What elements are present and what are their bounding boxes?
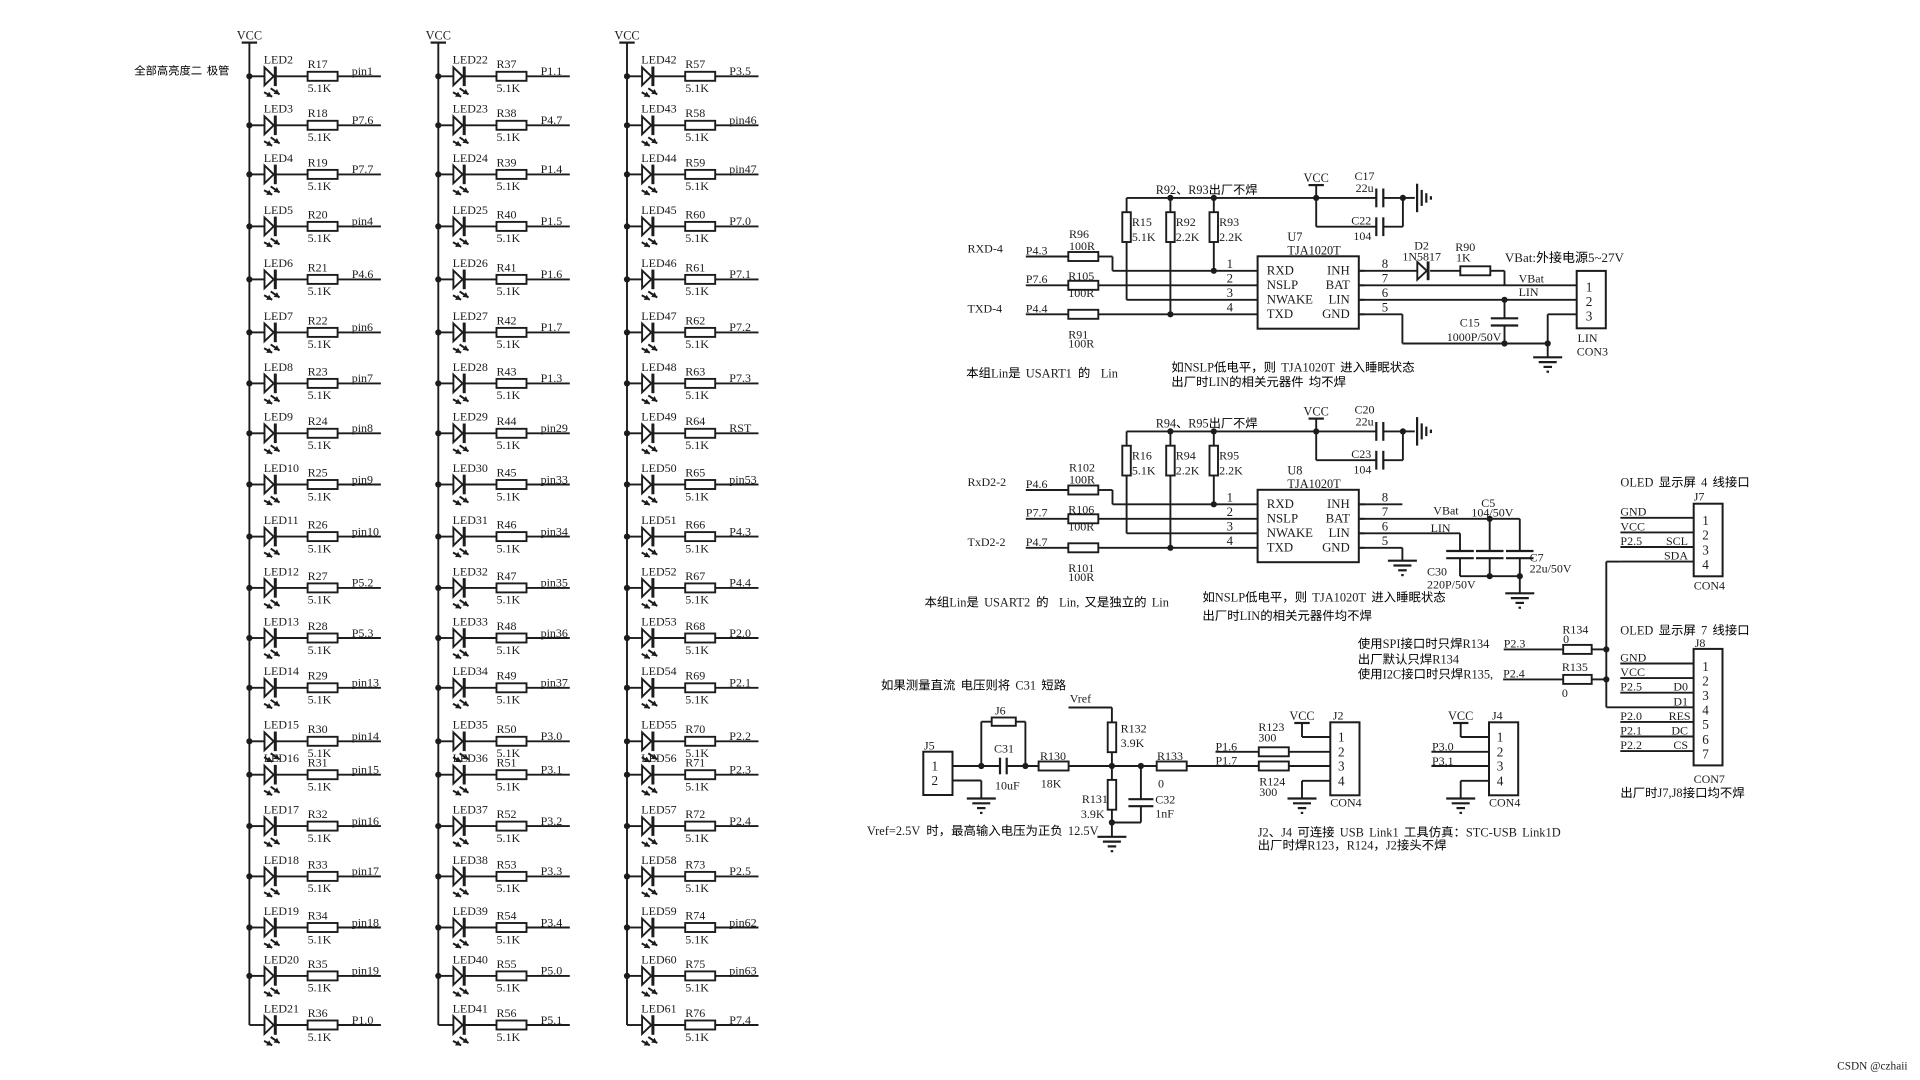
svg-text:LED53: LED53 (641, 614, 676, 628)
svg-text:R64: R64 (685, 414, 705, 428)
svg-text:2: 2 (1586, 294, 1593, 309)
svg-text:2: 2 (1227, 505, 1233, 519)
svg-text:R36: R36 (308, 1006, 328, 1020)
svg-text:P2.2: P2.2 (729, 729, 751, 743)
svg-text:LED8: LED8 (264, 360, 293, 374)
svg-text:Lin: Lin (991, 366, 1008, 380)
svg-text:22u/50V: 22u/50V (1530, 562, 1572, 576)
svg-text:C22: C22 (1351, 214, 1371, 228)
svg-text:R95: R95 (1219, 449, 1239, 463)
svg-text:LED54: LED54 (641, 664, 676, 678)
svg-text:LED26: LED26 (453, 256, 488, 270)
svg-text:R42: R42 (497, 313, 517, 327)
svg-text:R25: R25 (308, 465, 328, 479)
svg-text:LED40: LED40 (453, 952, 488, 966)
svg-text:LED12: LED12 (264, 564, 299, 578)
svg-text:300: 300 (1259, 785, 1277, 799)
svg-text:P4.6: P4.6 (1026, 477, 1048, 491)
svg-text:P2.1: P2.1 (729, 676, 751, 690)
svg-text:pin6: pin6 (352, 320, 373, 334)
svg-text:R48: R48 (497, 619, 517, 633)
svg-text:R24: R24 (308, 414, 328, 428)
svg-text:J2: J2 (1333, 709, 1344, 723)
svg-text:R21: R21 (308, 260, 328, 274)
svg-text:CS: CS (1673, 738, 1688, 752)
svg-text:5.1K: 5.1K (497, 881, 521, 895)
svg-text:LED21: LED21 (264, 1001, 299, 1015)
svg-text:R40: R40 (497, 207, 517, 221)
svg-text:pin14: pin14 (352, 729, 379, 743)
svg-text:C23: C23 (1351, 447, 1371, 461)
svg-text:P3.5: P3.5 (729, 64, 751, 78)
svg-text:CON4: CON4 (1489, 796, 1520, 810)
svg-text:R35: R35 (308, 957, 328, 971)
svg-text:LED25: LED25 (453, 203, 488, 217)
svg-text:4: 4 (1338, 773, 1345, 788)
svg-text:2: 2 (1702, 528, 1709, 543)
svg-text:CON3: CON3 (1577, 345, 1608, 359)
svg-text:5.1K: 5.1K (497, 231, 521, 245)
svg-text:LED39: LED39 (453, 904, 488, 918)
svg-text:2.2K: 2.2K (1219, 463, 1243, 477)
svg-text:R20: R20 (308, 207, 328, 221)
svg-text:P4.7: P4.7 (541, 113, 563, 127)
svg-text:1: 1 (1338, 730, 1345, 745)
svg-text:5~27V: 5~27V (1588, 250, 1625, 265)
svg-text:4: 4 (1701, 476, 1707, 490)
svg-text:6: 6 (1382, 520, 1389, 534)
svg-text:5.1K: 5.1K (308, 643, 332, 657)
svg-text:P1.6: P1.6 (541, 267, 563, 281)
svg-text:INH: INH (1327, 264, 1350, 278)
svg-text:3: 3 (1227, 520, 1233, 534)
svg-text:RES: RES (1669, 709, 1691, 723)
svg-text:7: 7 (1382, 272, 1389, 286)
svg-text:pin1: pin1 (352, 64, 373, 78)
svg-text:P2.4: P2.4 (729, 814, 751, 828)
svg-text:R92: R92 (1176, 215, 1196, 229)
svg-text:1000P/50V: 1000P/50V (1447, 330, 1502, 344)
svg-text:5.1K: 5.1K (1132, 463, 1156, 477)
svg-text:VCC: VCC (1304, 405, 1329, 419)
svg-text:5.1K: 5.1K (308, 932, 332, 946)
svg-text:R15: R15 (1132, 215, 1152, 229)
svg-text:pin63: pin63 (729, 964, 756, 978)
svg-text:2: 2 (1497, 744, 1504, 759)
svg-text:5.1K: 5.1K (497, 932, 521, 946)
svg-text:R134: R134 (1463, 637, 1490, 651)
svg-text:Lin,: Lin, (1059, 596, 1079, 610)
svg-text:LED20: LED20 (264, 952, 299, 966)
svg-text:5.1K: 5.1K (497, 130, 521, 144)
svg-text:RXD-4: RXD-4 (968, 242, 1003, 256)
svg-text:RXD: RXD (1267, 497, 1294, 511)
svg-text:R70: R70 (685, 722, 705, 736)
svg-text:LED22: LED22 (453, 53, 488, 67)
svg-text:LED61: LED61 (641, 1001, 676, 1015)
svg-text:LED27: LED27 (453, 309, 488, 323)
svg-text:1: 1 (1702, 513, 1709, 528)
svg-text:R60: R60 (685, 207, 705, 221)
svg-text:J5: J5 (924, 739, 935, 753)
svg-text:Lin: Lin (1101, 366, 1118, 380)
svg-text:5.1K: 5.1K (685, 981, 709, 995)
svg-text:R56: R56 (497, 1006, 517, 1020)
svg-text:LIN: LIN (1578, 331, 1598, 345)
svg-text:R30: R30 (308, 722, 328, 736)
svg-text:pin17: pin17 (352, 864, 379, 878)
svg-text:LED4: LED4 (264, 151, 293, 165)
svg-text:5.1K: 5.1K (308, 541, 332, 555)
svg-text:5.1K: 5.1K (497, 1030, 521, 1044)
svg-text:2.2K: 2.2K (1176, 463, 1200, 477)
svg-text:NSLP: NSLP (1215, 591, 1245, 605)
svg-text:LED29: LED29 (453, 410, 488, 424)
svg-text:R123: R123 (1307, 839, 1334, 853)
svg-text:5.1K: 5.1K (685, 643, 709, 657)
svg-text:1: 1 (932, 759, 939, 774)
svg-text:GND: GND (1620, 505, 1646, 519)
svg-text:Lin: Lin (949, 596, 966, 610)
svg-text:R45: R45 (497, 465, 517, 479)
svg-text:DC: DC (1671, 724, 1688, 738)
svg-text:0: 0 (1563, 632, 1569, 646)
svg-text:R63: R63 (685, 364, 705, 378)
svg-text:5.1K: 5.1K (308, 981, 332, 995)
svg-text:5.1K: 5.1K (685, 130, 709, 144)
svg-text:R26: R26 (308, 518, 328, 532)
svg-text:12.5V: 12.5V (1068, 824, 1099, 838)
svg-text:VCC: VCC (614, 29, 639, 43)
svg-text:5.1K: 5.1K (497, 388, 521, 402)
svg-text:TJA1020T: TJA1020T (1281, 361, 1335, 375)
svg-text:VBat:: VBat: (1505, 250, 1536, 265)
svg-text:4: 4 (1702, 703, 1709, 718)
svg-text:LED51: LED51 (641, 513, 676, 527)
svg-text:LED57: LED57 (641, 803, 676, 817)
svg-text:pin62: pin62 (729, 915, 756, 929)
svg-text:3: 3 (1586, 308, 1593, 323)
svg-text:P7.2: P7.2 (729, 320, 751, 334)
svg-text:P3.0: P3.0 (541, 729, 563, 743)
svg-text:1: 1 (1586, 279, 1593, 294)
svg-text:P2.4: P2.4 (1503, 666, 1525, 680)
svg-text:6: 6 (1382, 286, 1389, 300)
svg-text:R131: R131 (1082, 792, 1108, 806)
svg-text:5.1K: 5.1K (685, 593, 709, 607)
svg-text:TXD-4: TXD-4 (968, 301, 1003, 315)
svg-text:J2: J2 (1386, 839, 1397, 853)
svg-text:R134: R134 (1432, 653, 1459, 667)
svg-text:1: 1 (1227, 257, 1233, 271)
svg-text:5.1K: 5.1K (685, 693, 709, 707)
svg-text:R27: R27 (308, 569, 328, 583)
svg-text:LED45: LED45 (641, 203, 676, 217)
svg-text:LED58: LED58 (641, 853, 676, 867)
svg-text:R95: R95 (1188, 417, 1208, 431)
svg-text:OLED: OLED (1620, 624, 1653, 638)
svg-text:1nF: 1nF (1155, 807, 1174, 821)
svg-text:1N5817: 1N5817 (1402, 249, 1441, 263)
svg-text:VCC: VCC (426, 29, 451, 43)
svg-text:2.2K: 2.2K (1219, 230, 1243, 244)
svg-text:LIN: LIN (1328, 526, 1349, 540)
svg-text:LED36: LED36 (453, 751, 488, 765)
svg-text:P7.0: P7.0 (729, 214, 751, 228)
svg-text:P5.2: P5.2 (352, 576, 374, 590)
svg-text:5.1K: 5.1K (497, 489, 521, 503)
svg-text:R18: R18 (308, 106, 328, 120)
svg-text:5.1K: 5.1K (497, 179, 521, 193)
svg-text:3.9K: 3.9K (1121, 736, 1145, 750)
svg-text:P1.4: P1.4 (541, 162, 563, 176)
svg-text:pin37: pin37 (541, 676, 568, 690)
svg-text:pin47: pin47 (729, 162, 756, 176)
svg-text:VCC: VCC (1620, 519, 1645, 533)
svg-text:R22: R22 (308, 313, 328, 327)
svg-text:LED6: LED6 (264, 256, 293, 270)
svg-text:R92: R92 (1156, 183, 1176, 197)
svg-text:LED9: LED9 (264, 410, 293, 424)
svg-text:pin9: pin9 (352, 472, 373, 486)
svg-text:5.1K: 5.1K (685, 541, 709, 555)
svg-text:LED44: LED44 (641, 151, 676, 165)
svg-text:5.1K: 5.1K (308, 130, 332, 144)
svg-text:LED59: LED59 (641, 904, 676, 918)
svg-text:LED3: LED3 (264, 102, 293, 116)
svg-text:GND: GND (1322, 307, 1350, 321)
svg-text:R55: R55 (497, 957, 517, 971)
svg-text:J4: J4 (1492, 709, 1503, 723)
svg-text:2.2K: 2.2K (1176, 230, 1200, 244)
svg-text:P1.5: P1.5 (541, 214, 563, 228)
svg-text:USART2: USART2 (984, 596, 1030, 610)
svg-text:LED42: LED42 (641, 53, 676, 67)
svg-text:LED10: LED10 (264, 461, 299, 475)
svg-text:R38: R38 (497, 106, 517, 120)
svg-text:R16: R16 (1132, 449, 1152, 463)
svg-text:R57: R57 (685, 57, 705, 71)
svg-text:NSLP: NSLP (1267, 278, 1298, 292)
svg-text:LED60: LED60 (641, 952, 676, 966)
svg-text:pin29: pin29 (541, 421, 568, 435)
svg-text:R32: R32 (308, 807, 328, 821)
svg-text:1K: 1K (1456, 251, 1471, 265)
svg-text:R74: R74 (685, 908, 705, 922)
svg-text:U7: U7 (1287, 230, 1302, 244)
svg-text:LED46: LED46 (641, 256, 676, 270)
svg-text:pin19: pin19 (352, 964, 379, 978)
svg-text:5.1K: 5.1K (308, 593, 332, 607)
svg-text:LED33: LED33 (453, 614, 488, 628)
svg-text:5.1K: 5.1K (497, 284, 521, 298)
svg-text:LED34: LED34 (453, 664, 488, 678)
svg-text:R94: R94 (1176, 449, 1196, 463)
svg-text:LED49: LED49 (641, 410, 676, 424)
svg-text:5.1K: 5.1K (685, 179, 709, 193)
svg-text:0: 0 (1158, 777, 1164, 791)
svg-text:Lin: Lin (1152, 596, 1169, 610)
svg-text:USB: USB (1340, 826, 1364, 840)
svg-text:104: 104 (1353, 462, 1371, 476)
svg-text:LIN: LIN (1519, 285, 1539, 299)
svg-text:pin36: pin36 (541, 626, 568, 640)
svg-text:5.1K: 5.1K (308, 284, 332, 298)
svg-text:100R: 100R (1068, 286, 1094, 300)
svg-text:LIN: LIN (1209, 375, 1230, 389)
svg-text:LED32: LED32 (453, 564, 488, 578)
svg-text:P3.1: P3.1 (541, 763, 563, 777)
svg-text:R28: R28 (308, 619, 328, 633)
svg-text:pin46: pin46 (729, 113, 756, 127)
svg-text:22u: 22u (1356, 181, 1374, 195)
svg-text:J7,J8: J7,J8 (1658, 786, 1683, 800)
svg-text:5.1K: 5.1K (308, 231, 332, 245)
svg-text:LED56: LED56 (641, 751, 676, 765)
svg-text:5.1K: 5.1K (308, 780, 332, 794)
svg-text:R67: R67 (685, 569, 705, 583)
svg-text:220P/50V: 220P/50V (1427, 577, 1476, 591)
svg-text:P2.5: P2.5 (1620, 534, 1642, 548)
svg-text:C15: C15 (1460, 316, 1480, 330)
svg-text:P4.4: P4.4 (729, 576, 751, 590)
svg-text:R65: R65 (685, 465, 705, 479)
svg-text:8: 8 (1382, 257, 1388, 271)
svg-text:R93: R93 (1188, 183, 1208, 197)
svg-text:P7.4: P7.4 (729, 1013, 751, 1027)
svg-text:TJA1020T: TJA1020T (1287, 243, 1341, 257)
svg-text:5.1K: 5.1K (308, 388, 332, 402)
svg-text:P5.3: P5.3 (352, 626, 374, 640)
svg-text:LED15: LED15 (264, 718, 299, 732)
svg-text:P2.3: P2.3 (1504, 636, 1526, 650)
svg-text:pin4: pin4 (352, 214, 373, 228)
svg-text:5.1K: 5.1K (497, 643, 521, 657)
svg-text:P2.1: P2.1 (1620, 724, 1642, 738)
svg-text:P1.7: P1.7 (541, 320, 563, 334)
svg-text:R50: R50 (497, 722, 517, 736)
svg-text:5: 5 (1382, 301, 1388, 315)
svg-text:10uF: 10uF (995, 779, 1020, 793)
svg-text:R130: R130 (1040, 749, 1066, 763)
svg-text:R54: R54 (497, 908, 517, 922)
svg-text:R51: R51 (497, 756, 517, 770)
svg-text:P1.7: P1.7 (1216, 753, 1238, 767)
svg-text:INH: INH (1327, 497, 1350, 511)
svg-text:LED11: LED11 (264, 513, 299, 527)
svg-text:TxD2-2: TxD2-2 (968, 535, 1006, 549)
svg-text:P4.6: P4.6 (352, 267, 374, 281)
svg-text:Link1D: Link1D (1522, 826, 1561, 840)
svg-text:2: 2 (932, 773, 939, 788)
svg-text:LED18: LED18 (264, 853, 299, 867)
svg-text:5.1K: 5.1K (497, 593, 521, 607)
svg-text:RxD2-2: RxD2-2 (968, 475, 1007, 489)
svg-text:R39: R39 (497, 155, 517, 169)
svg-text:pin15: pin15 (352, 763, 379, 777)
svg-text:C31: C31 (1015, 679, 1036, 693)
svg-text:LED50: LED50 (641, 461, 676, 475)
svg-text:5.1K: 5.1K (308, 81, 332, 95)
svg-text:7: 7 (1702, 746, 1709, 761)
svg-text:J7: J7 (1694, 490, 1705, 504)
svg-text:5.1K: 5.1K (685, 489, 709, 503)
svg-text:5.1K: 5.1K (308, 693, 332, 707)
svg-text:D0: D0 (1673, 680, 1688, 694)
svg-text:P5.0: P5.0 (541, 964, 563, 978)
svg-text:LED31: LED31 (453, 513, 488, 527)
svg-text:6: 6 (1702, 732, 1709, 747)
svg-text:5.1K: 5.1K (685, 81, 709, 95)
svg-text:R73: R73 (685, 857, 705, 871)
svg-text:OLED: OLED (1620, 476, 1653, 490)
svg-text:R59: R59 (685, 155, 705, 169)
svg-text:R52: R52 (497, 807, 517, 821)
svg-text:LED19: LED19 (264, 904, 299, 918)
svg-text:C31: C31 (994, 742, 1014, 756)
svg-text:5: 5 (1382, 534, 1388, 548)
svg-text:U8: U8 (1287, 463, 1302, 477)
svg-text:3: 3 (1497, 759, 1504, 774)
svg-text:R135,: R135, (1463, 667, 1493, 681)
svg-text:D1: D1 (1673, 694, 1688, 708)
svg-text:VBat: VBat (1433, 504, 1459, 518)
svg-text:P7.6: P7.6 (352, 113, 374, 127)
svg-text:LED2: LED2 (264, 53, 293, 67)
svg-text:2: 2 (1338, 744, 1345, 759)
svg-text:0: 0 (1562, 686, 1568, 700)
svg-text:R132: R132 (1121, 722, 1147, 736)
svg-text:R68: R68 (685, 619, 705, 633)
svg-text:R34: R34 (308, 908, 328, 922)
svg-text:LED17: LED17 (264, 803, 299, 817)
svg-text:J2: J2 (1258, 826, 1269, 840)
svg-text:NSLP: NSLP (1267, 512, 1298, 526)
svg-text:pin10: pin10 (352, 524, 379, 538)
svg-text:2: 2 (1227, 272, 1233, 286)
svg-text:R135: R135 (1562, 660, 1588, 674)
svg-text:SDA: SDA (1664, 549, 1688, 563)
svg-text:TJA1020T: TJA1020T (1287, 477, 1341, 491)
svg-text:R46: R46 (497, 518, 517, 532)
svg-text:P5.1: P5.1 (541, 1013, 563, 1027)
svg-text:J4: J4 (1281, 826, 1292, 840)
svg-text:5.1K: 5.1K (497, 337, 521, 351)
svg-text:pin7: pin7 (352, 371, 373, 385)
svg-text:4: 4 (1227, 534, 1234, 548)
svg-text:Vref: Vref (1070, 692, 1091, 706)
svg-text:7: 7 (1382, 505, 1389, 519)
svg-text:R19: R19 (308, 155, 328, 169)
svg-text:5.1K: 5.1K (685, 831, 709, 845)
svg-text:R23: R23 (308, 364, 328, 378)
svg-text:5.1K: 5.1K (497, 693, 521, 707)
svg-text:22u: 22u (1356, 415, 1374, 429)
svg-text:5.1K: 5.1K (308, 179, 332, 193)
svg-text:R124: R124 (1347, 839, 1374, 853)
svg-text:CSDN @czhaii: CSDN @czhaii (1837, 1061, 1907, 1073)
svg-text:1: 1 (1497, 730, 1504, 745)
svg-text:4: 4 (1497, 773, 1504, 788)
svg-text:R43: R43 (497, 364, 517, 378)
svg-text:5.1K: 5.1K (685, 1030, 709, 1044)
svg-text:LED38: LED38 (453, 853, 488, 867)
svg-text:R44: R44 (497, 414, 517, 428)
svg-text:1: 1 (1227, 491, 1233, 505)
svg-text:3: 3 (1702, 542, 1709, 557)
svg-text:LED16: LED16 (264, 751, 299, 765)
svg-text:P1.3: P1.3 (541, 371, 563, 385)
